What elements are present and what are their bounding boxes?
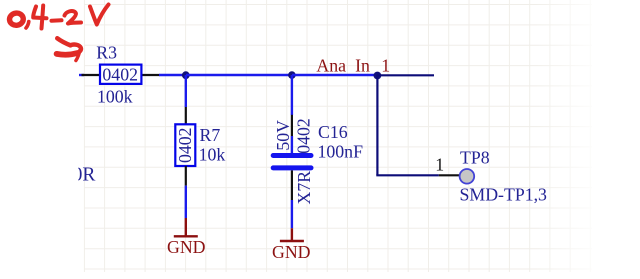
svg-text:0402: 0402: [175, 127, 195, 163]
handwritten annotation 0,4-2V: [9, 5, 109, 29]
svg-text:SMD-TP1,3: SMD-TP1,3: [460, 185, 548, 205]
resistor R7 pin 2 (bottom): [185, 166, 187, 186]
power port GND (R7): [174, 218, 198, 236]
svg-text:50V: 50V: [273, 120, 293, 151]
wire: junction B down to C16: [291, 75, 293, 115]
capacitor C16 pin 2 (bottom): [291, 170, 293, 200]
junction B (C16 branch): [288, 71, 296, 79]
resistor R7 body: [175, 124, 195, 166]
junction C (TP8 branch): [374, 72, 382, 80]
svg-text:Ana: Ana: [316, 56, 346, 76]
svg-text:X7R: X7R: [294, 171, 314, 205]
svg-text:0402: 0402: [293, 118, 313, 154]
resistor R3 body: [100, 65, 141, 84]
wire: junction A to junction B: [186, 74, 292, 76]
svg-text:GND: GND: [167, 237, 206, 257]
wire: junction A down to R7: [185, 75, 187, 107]
svg-text:R3: R3: [96, 43, 117, 63]
wire: TP8 corner to pin: [376, 174, 439, 176]
resistor R3 pin 2 (right): [141, 74, 159, 76]
svg-text:100nF: 100nF: [318, 142, 364, 162]
resistor R3 pin 1 (left): [82, 74, 101, 76]
test point TP8 pad: [460, 169, 475, 184]
svg-text:TP8: TP8: [460, 148, 490, 168]
svg-text:In: In: [355, 56, 370, 76]
net label Ana_In_1: [316, 56, 390, 76]
wire stub above C16 top plate: [291, 136, 293, 153]
svg-text:R7: R7: [200, 125, 221, 145]
wire: R7 to GND: [185, 186, 187, 218]
svg-text:GND: GND: [272, 242, 311, 262]
wire: C16 to GND: [291, 200, 293, 228]
wire: junction C to right end (net Ana_In_1): [377, 74, 434, 76]
capacitor C16 pin 1 (top): [291, 115, 293, 136]
power port GND (C16): [280, 228, 304, 241]
svg-text:100k: 100k: [97, 87, 133, 107]
handwritten arrow: [57, 38, 81, 60]
capacitor C16 top plate: [271, 153, 314, 158]
TP8 pin 1: [439, 174, 460, 176]
svg-text:1: 1: [435, 154, 444, 174]
wire: junction B to junction C: [292, 74, 377, 76]
svg-text:C16: C16: [318, 122, 348, 142]
resistor R7 pin 1 (top): [185, 107, 187, 125]
wire: junction C down to TP8 corner: [376, 75, 378, 175]
svg-text:0402: 0402: [102, 64, 138, 84]
junction A (R7 branch): [182, 71, 190, 79]
svg-text:10k: 10k: [199, 145, 226, 165]
svg-text:1: 1: [381, 56, 390, 76]
wire: R3 to junction A: [159, 74, 186, 76]
capacitor C16 bottom plate: [271, 165, 314, 170]
wire: left stub to R3: [79, 74, 84, 76]
